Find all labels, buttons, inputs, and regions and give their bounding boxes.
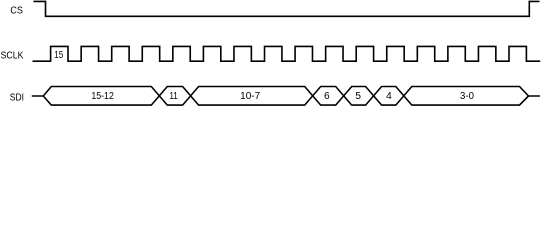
svg-text:11: 11: [169, 91, 178, 102]
svg-text:SCLK: SCLK: [1, 50, 24, 61]
svg-text:10-7: 10-7: [240, 91, 260, 102]
svg-text:4: 4: [386, 91, 392, 102]
svg-text:5: 5: [355, 91, 361, 102]
svg-text:6: 6: [324, 91, 330, 102]
svg-text:CS: CS: [10, 6, 23, 17]
svg-text:3-0: 3-0: [460, 91, 474, 102]
svg-text:SDI: SDI: [10, 93, 24, 104]
svg-text:15: 15: [54, 50, 63, 61]
svg-text:15-12: 15-12: [91, 91, 114, 102]
